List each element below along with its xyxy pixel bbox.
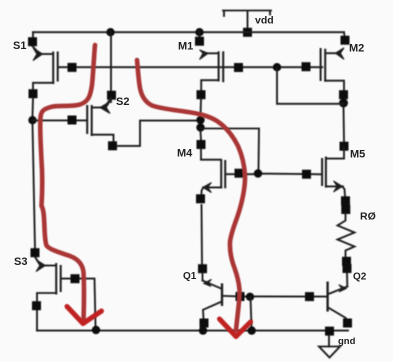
svg-text:M5: M5 bbox=[350, 149, 365, 161]
node dot ground rail at base tie bbox=[248, 326, 256, 334]
wire ground rail bbox=[37, 330, 348, 332]
svg-text:S3: S3 bbox=[14, 256, 27, 268]
node dot S2 gate tap bbox=[28, 116, 36, 124]
node square M2 drain bbox=[339, 90, 348, 99]
node square S2 gate line bbox=[68, 116, 77, 125]
wire left rail down to S3 bbox=[33, 124, 36, 249]
node square Q2 collector bbox=[343, 319, 352, 328]
node dot ground rail at Q1 bbox=[199, 326, 207, 334]
node vdd junction square on top rail bbox=[243, 28, 252, 37]
red highlight stroke A (left loop with arrow) bbox=[40, 45, 101, 324]
transistor M1 bbox=[200, 32, 224, 90]
transistor M5 bbox=[322, 147, 345, 197]
red arrowhead A bbox=[67, 307, 102, 324]
node square S3 source bbox=[31, 248, 40, 257]
svg-text:RØ: RØ bbox=[360, 211, 376, 223]
node square ground rail at gnd symbol bbox=[325, 327, 334, 336]
node dot M1 drain at M5 gate link bbox=[196, 123, 204, 131]
wire S2 source from top rail bbox=[110, 32, 112, 102]
node square R0 bottom a bbox=[342, 257, 351, 266]
svg-text:M4: M4 bbox=[177, 148, 193, 160]
node square M4 source bbox=[196, 194, 205, 203]
node dot M1 drain at S2 link bbox=[196, 116, 204, 124]
node square S1 drain bbox=[29, 89, 38, 98]
wire S2 drain link to M1 drain bbox=[117, 121, 196, 146]
node dot gate bus at M2 diode tie bbox=[273, 63, 281, 71]
node dot ground rail at S3 gate bbox=[92, 326, 100, 334]
svg-text:S2: S2 bbox=[116, 96, 129, 108]
vdd supply symbol bbox=[223, 11, 271, 33]
node square base line at Q1 bbox=[236, 292, 245, 301]
transistor M2 bbox=[321, 32, 345, 90]
wire S2 gate line to left rail bbox=[33, 119, 87, 121]
node square M5 gate bbox=[302, 170, 311, 179]
ground symbol bbox=[319, 336, 340, 358]
node square M4 gate bbox=[235, 169, 244, 178]
node square M4 drain top bbox=[197, 140, 206, 149]
svg-text:S1: S1 bbox=[13, 40, 26, 52]
node square base line at Q2 bbox=[305, 292, 314, 301]
node square Q1 emitter bbox=[198, 264, 207, 273]
svg-text:vdd: vdd bbox=[255, 15, 274, 27]
node square S3 drain bbox=[32, 301, 41, 310]
node dot M4-M5 gate tie bbox=[254, 169, 262, 177]
svg-text:Q1: Q1 bbox=[183, 271, 197, 282]
node square M1 drain bbox=[197, 90, 206, 99]
wire left rail drop to S1 bbox=[32, 32, 34, 38]
node dot M2 drain tie bbox=[339, 99, 348, 108]
wire M2 drain to gate bus (diode connection) bbox=[277, 67, 344, 104]
node square M1 source bbox=[195, 37, 204, 46]
node square S3 gate bbox=[71, 274, 80, 283]
svg-text:Q2: Q2 bbox=[353, 272, 367, 283]
node dot top rail at S2 branch bbox=[106, 28, 114, 36]
node dot top rail at M1 bbox=[195, 28, 203, 36]
red arrowhead B bbox=[220, 319, 251, 337]
node square gate bus at M1 bbox=[234, 63, 243, 72]
svg-text:M2: M2 bbox=[349, 43, 364, 55]
transistor S1 bbox=[33, 46, 58, 89]
wire M2 drain down to M5 bbox=[343, 107, 346, 142]
node square S2 source wire bbox=[107, 91, 116, 100]
wire top rail VDD bbox=[33, 31, 344, 33]
wire left rail S1 to S2 gate tap bbox=[32, 98, 35, 116]
wire Q1-Q2 base line bbox=[223, 295, 326, 298]
node square gate bus at M2 bbox=[302, 62, 311, 71]
node square M5 source a bbox=[341, 196, 350, 205]
node square gate bus at S1 bbox=[68, 63, 77, 72]
wire base tie down to ground rail bbox=[251, 297, 252, 327]
node square M5 drain top bbox=[340, 142, 349, 151]
transistor Q1 bbox=[203, 273, 223, 319]
wire S3 gate to ground rail bbox=[62, 279, 96, 326]
wire M5 gate link bbox=[201, 129, 260, 170]
svg-text:M1: M1 bbox=[178, 41, 193, 53]
wire M1 drain down bbox=[200, 99, 203, 116]
node square S2 drain bbox=[108, 141, 117, 150]
wire down to M4 bbox=[200, 132, 203, 141]
transistor M4 bbox=[201, 160, 225, 196]
node square Q1 collector bbox=[200, 319, 209, 328]
node square S1 source bbox=[28, 37, 37, 46]
wire into M4 bbox=[200, 149, 202, 159]
transistor Q2 bbox=[328, 273, 348, 321]
wire gate bus S1-M1-M2 bbox=[59, 66, 323, 68]
node dot base line tie bbox=[246, 293, 254, 301]
node square M2 source bbox=[341, 36, 350, 45]
transistor S3 bbox=[35, 257, 61, 331]
wire M4-M5 gate line bbox=[226, 173, 321, 176]
red highlight stroke B (right loop with arrow) bbox=[137, 60, 251, 337]
wire M4 source down to Q1 bbox=[201, 205, 204, 264]
resistor R0 bbox=[338, 213, 355, 257]
node square R0 bottom b bbox=[343, 264, 352, 273]
node square M5 source b bbox=[341, 205, 350, 214]
svg-text:gnd: gnd bbox=[338, 336, 356, 347]
transistor S2 bbox=[87, 98, 113, 142]
